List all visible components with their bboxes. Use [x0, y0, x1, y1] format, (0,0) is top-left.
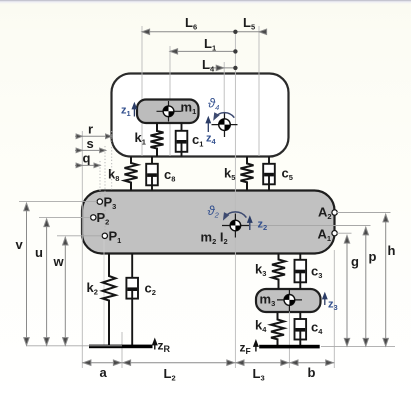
node P1 [102, 233, 107, 238]
damper c2 (left suspension) [126, 254, 138, 346]
svg-text:q: q [83, 151, 91, 166]
svg-text:L3: L3 [253, 366, 265, 383]
wire: dotted extension q to P3, x=100 [99, 161, 101, 200]
wire: A1 reference line [337, 232, 352, 234]
axle mass m3 body [256, 289, 321, 312]
rotation arc theta2 [222, 212, 246, 220]
wire: extension line x=224 cab CoM vertical [223, 62, 225, 137]
svg-text:k5: k5 [224, 166, 235, 183]
wire: dotted extension s to P1, x=105 [104, 146, 106, 233]
damper c4 (tyre front) [295, 312, 307, 345]
dimension L6 line [142, 29, 267, 34]
wire: dotted extension r to cab left edge, x=111.7 [111, 131, 113, 190]
dimension L2 line [122, 360, 235, 365]
chassis mass m2 body [82, 191, 335, 254]
arrow z1 [132, 104, 136, 117]
wire: extension line x=259 (rear cab mount) [258, 26, 260, 156]
CoM symbol m1 [157, 101, 182, 122]
svg-text:h: h [388, 243, 396, 258]
dimension b line [289, 360, 334, 365]
svg-text:w: w [53, 254, 65, 269]
dimension s line [75, 148, 106, 153]
damper c3 (front susp upper) [295, 254, 307, 290]
dimension L4 line [209, 65, 238, 70]
svg-text:c4: c4 [311, 320, 323, 337]
svg-text:zR: zR [158, 339, 171, 355]
dimension u line [44, 219, 49, 345]
svg-text:v: v [16, 237, 24, 252]
ground bar right (road input zF) [259, 345, 320, 349]
svg-text:a: a [100, 365, 108, 380]
dimension a line [82, 360, 122, 365]
seat mass m1 body [137, 100, 199, 124]
svg-text:L4: L4 [202, 57, 215, 74]
dimension p line [363, 227, 368, 346]
dimension w line [63, 237, 68, 345]
dimension h line [383, 214, 388, 346]
svg-text:k3: k3 [255, 262, 266, 279]
arrow z3 [323, 294, 327, 306]
spring k3 (front susp upper) [272, 254, 285, 290]
svg-text:L6: L6 [185, 15, 197, 32]
spring k8 (front cab mount) [125, 157, 138, 191]
svg-text:u: u [35, 245, 43, 260]
svg-text:z3: z3 [328, 299, 338, 313]
svg-text:zF: zF [240, 341, 251, 357]
dimension L1 line [170, 49, 238, 54]
spring k5 (rear cab mount) [241, 157, 254, 191]
rotation arc theta4 [212, 113, 234, 120]
node P3 [97, 199, 102, 204]
svg-text:k8: k8 [108, 167, 119, 184]
svg-text:b: b [308, 365, 316, 380]
damper c1 (seat) [176, 123, 188, 157]
wire: m3 centre line x=289.4 [288, 300, 290, 368]
damper c5 (rear cab mount) [263, 157, 275, 191]
svg-text:c2: c2 [145, 281, 156, 298]
damper c8 (front cab mount) [146, 157, 158, 191]
arrow zF [254, 341, 258, 352]
wire: chassis left edge extension x=82.3 [81, 131, 83, 368]
svg-text:g: g [351, 254, 359, 269]
ground bar left (road input zR) [89, 345, 153, 349]
arrow zR [153, 340, 157, 350]
wire: faint line below P1 x=104 [103, 239, 105, 346]
node A2 [332, 210, 337, 215]
wire: chassis CoM vertical line x=235.4 [234, 32, 236, 368]
cab body (upper rounded rectangle) [112, 74, 289, 157]
svg-text:p: p [369, 249, 377, 264]
wire: extension line x=170 (seat mounts) [169, 46, 171, 156]
dimension q line [75, 163, 100, 168]
wire: m2 CoM reference line to p [249, 225, 371, 227]
svg-text:L2: L2 [164, 366, 176, 383]
CoM symbol m2 [222, 214, 249, 238]
svg-text:c5: c5 [282, 166, 293, 183]
wire: right ground reference line [321, 346, 395, 348]
CoM symbol m3 [277, 289, 302, 312]
spring k2 (left suspension) [103, 254, 116, 346]
svg-text:s: s [87, 136, 94, 151]
dimension L3 line [235, 360, 289, 365]
svg-text:r: r [88, 122, 93, 137]
wire: P2 reference line [39, 216, 90, 218]
dimension g line [344, 236, 349, 347]
svg-text:k2: k2 [87, 280, 98, 297]
svg-text:L1: L1 [204, 36, 216, 53]
svg-text:L5: L5 [243, 15, 255, 32]
wire: A2 reference line [337, 212, 391, 214]
CoM symbol cab (z4) [212, 112, 238, 137]
svg-text:k4: k4 [255, 318, 267, 335]
spring k1 (seat front) [151, 123, 164, 157]
wire: extension line x=142 (front cab mount) [141, 26, 143, 156]
arrow z2 [248, 217, 252, 230]
wire: P3 reference line [19, 201, 97, 203]
svg-text:c8: c8 [164, 167, 175, 184]
wire: chassis right edge extension x=334.3 [333, 250, 335, 368]
node P2 [91, 215, 96, 220]
svg-text:c3: c3 [311, 264, 322, 281]
wire: left wheel centre line x=122 [121, 332, 123, 368]
dimension r line [75, 134, 112, 139]
arrow z4 [206, 118, 210, 133]
dimension v line [24, 203, 29, 345]
wire: left ground reference line [27, 345, 123, 347]
node A1 [332, 231, 337, 236]
spring k4 (tyre front) [271, 312, 284, 345]
wire: P1 reference line [57, 235, 102, 237]
